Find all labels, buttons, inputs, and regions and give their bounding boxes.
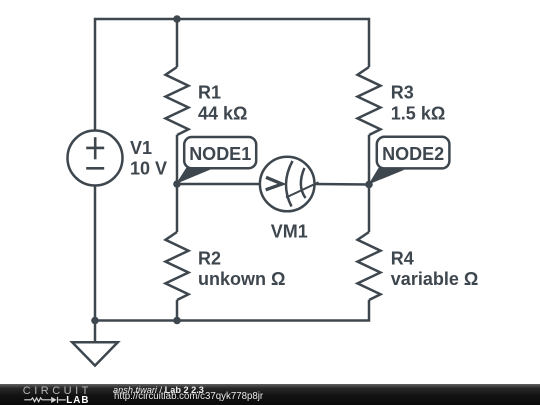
junction dot bottom left <box>91 317 99 325</box>
resistor R3 <box>358 67 381 135</box>
wire voltmeter to NODE2 <box>314 183 369 186</box>
svg-text:VM1: VM1 <box>271 221 308 241</box>
svg-text:R4: R4 <box>391 249 414 269</box>
resistor R4 <box>358 232 381 300</box>
label R2 unkown Ohm <box>198 249 285 290</box>
wire R2 bottom <box>176 300 179 321</box>
label R1 44 kOhm <box>198 83 247 124</box>
svg-text:variable Ω: variable Ω <box>391 269 478 289</box>
wire R1 bottom <box>176 135 179 184</box>
svg-text:44 kΩ: 44 kΩ <box>198 103 247 123</box>
wire left lower <box>94 186 97 321</box>
voltage source V1 <box>68 131 123 186</box>
wire top rail <box>95 19 369 131</box>
wire R1 top <box>176 19 179 67</box>
CircuitLab logo <box>0 384 100 405</box>
resistor R1 <box>166 67 189 135</box>
resistor R2 <box>166 232 189 300</box>
footer credit text <box>113 385 204 395</box>
footer url <box>114 391 263 402</box>
voltmeter VM1 <box>260 157 319 212</box>
label R3 1.5 kOhm <box>391 83 445 124</box>
svg-text:10 V: 10 V <box>130 159 167 179</box>
svg-text:NODE2: NODE2 <box>382 144 444 164</box>
svg-text:NODE1: NODE1 <box>189 144 251 164</box>
wire R4 top <box>368 185 371 233</box>
wire R3 bottom <box>368 135 371 185</box>
ground <box>72 342 118 365</box>
footer bar <box>0 384 540 405</box>
junction dot top <box>173 15 181 23</box>
svg-text:R2: R2 <box>198 249 221 269</box>
svg-text:unkown Ω: unkown Ω <box>198 269 285 289</box>
wire R2 top <box>176 184 179 232</box>
junction dot bottom middle <box>173 317 181 325</box>
node NODE1 <box>173 137 256 188</box>
node NODE2 <box>365 137 449 189</box>
label V1 10 V <box>130 138 167 179</box>
svg-text:V1: V1 <box>130 138 152 158</box>
svg-text:R3: R3 <box>391 83 414 103</box>
svg-text:1.5 kΩ: 1.5 kΩ <box>391 103 445 123</box>
wire NODE1 to voltmeter <box>177 183 260 186</box>
label VM1 <box>271 221 308 241</box>
svg-text:R1: R1 <box>198 83 221 103</box>
wire bottom rail <box>95 300 369 321</box>
svg-text:LAB: LAB <box>66 395 89 405</box>
wire ground stub <box>94 321 97 343</box>
label R4 variable Ohm <box>391 249 478 290</box>
